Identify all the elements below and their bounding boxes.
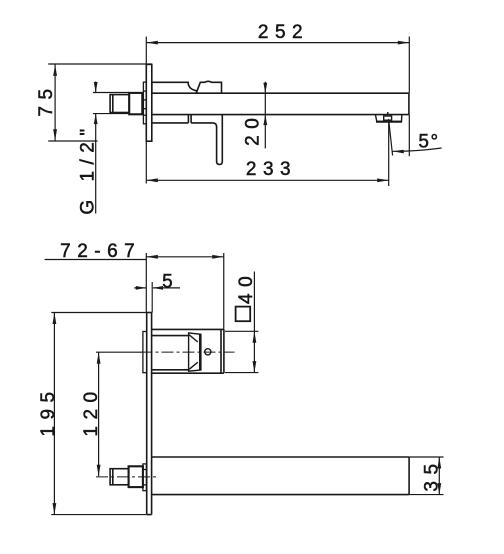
dim 233 line bbox=[146, 179, 388, 181]
svg-text:252: 252 bbox=[258, 22, 309, 43]
dim 40 line bbox=[253, 272, 255, 373]
dim 252 line bbox=[146, 42, 409, 44]
embedded body behind wall bbox=[143, 332, 147, 373]
svg-text:120: 120 bbox=[81, 385, 102, 436]
spout (front view) bbox=[152, 457, 410, 495]
dim 252 arrows bbox=[146, 41, 409, 45]
dim 233 extension (5 deg tilted stream line) bbox=[389, 119, 393, 156]
dim 35 extensions bbox=[409, 456, 443, 458]
mixer body bbox=[152, 329, 224, 373]
svg-text:G 1/2": G 1/2" bbox=[78, 122, 99, 214]
G1/2 dim extension lines bbox=[93, 92, 129, 94]
cartridge top + lever (top profile) bbox=[152, 82, 197, 93]
dim 20 line bbox=[264, 82, 266, 149]
fitting centerline bbox=[96, 476, 156, 478]
extension line left (wall plane) bbox=[145, 37, 147, 184]
body centerline bbox=[141, 351, 235, 353]
spout bottom line bbox=[152, 114, 409, 116]
dim 75 line bbox=[54, 64, 56, 140]
dim 195 line bbox=[53, 313, 55, 515]
dim 40 extensions bbox=[225, 330, 258, 332]
svg-text:75: 75 bbox=[36, 82, 57, 116]
set screw circle bbox=[205, 349, 211, 355]
spout top line bbox=[152, 92, 409, 94]
dim 5 (plate thickness) arrows outside bbox=[134, 287, 146, 289]
dim 75 extension top bbox=[48, 63, 152, 65]
extension: wall front face up to dim bbox=[145, 253, 147, 313]
handle (pointing at viewer) bbox=[189, 333, 201, 371]
svg-text:195: 195 bbox=[38, 385, 59, 436]
dim 195 extensions bbox=[51, 312, 146, 314]
svg-text:35: 35 bbox=[421, 457, 442, 491]
spout end edge bbox=[408, 93, 410, 114]
svg-text:5: 5 bbox=[162, 272, 179, 293]
5 deg arc bbox=[392, 148, 441, 151]
wall plate (top view, edge) bbox=[146, 64, 152, 141]
svg-text:72-67: 72-67 bbox=[60, 241, 141, 262]
dim 120 line bbox=[98, 352, 100, 476]
lever arm going down (top view) bbox=[191, 115, 222, 165]
body below spout bbox=[152, 115, 191, 123]
inlet fitting (front view) bbox=[110, 469, 129, 485]
dim 72-67 line bbox=[146, 256, 223, 258]
svg-text:5°: 5° bbox=[418, 132, 439, 153]
threaded strip behind plate bbox=[143, 82, 146, 124]
extension: body end up bbox=[223, 253, 225, 329]
dim 35 line bbox=[438, 457, 440, 495]
dim 75 arrows bbox=[53, 64, 57, 140]
dim 120 extension top bbox=[96, 351, 142, 353]
aerator at spout end bbox=[375, 112, 402, 122]
G1/2 inlet tube bbox=[110, 95, 129, 113]
svg-text:233: 233 bbox=[246, 159, 297, 180]
G1/2 dim line + arrows outside bbox=[95, 82, 97, 93]
dim 75 extension bottom bbox=[48, 140, 97, 142]
extension line right (spout end) bbox=[408, 37, 410, 94]
svg-text:20: 20 bbox=[243, 112, 264, 146]
svg-text:40: 40 bbox=[236, 270, 257, 304]
G1/2 nut bbox=[129, 93, 142, 114]
wall plate (front view, edge-on) bbox=[147, 313, 152, 515]
